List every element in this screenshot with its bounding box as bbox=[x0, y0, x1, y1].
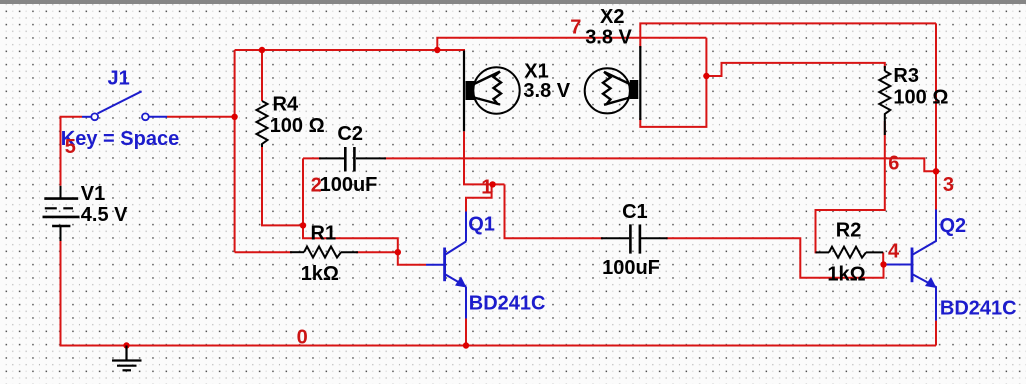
svg-text:BD241C: BD241C bbox=[940, 298, 1017, 320]
wire: X1 bottom pin to node1 bbox=[464, 131, 505, 184]
wire: C1 right run bbox=[666, 238, 884, 277]
transistor Q1 bbox=[426, 212, 466, 319]
wire: top rail y=50 bbox=[235, 49, 464, 51]
wire: battery top to switch corner bbox=[61, 117, 83, 186]
wire: C2 left lead drop to node2 bbox=[302, 158, 304, 225]
resistor R3 (vertical zigzag) bbox=[879, 66, 890, 135]
wire: R4 bottom to node2 bbox=[262, 147, 303, 225]
resistor R1 (horizontal zigzag) bbox=[290, 247, 358, 258]
svg-text:R2: R2 bbox=[836, 220, 862, 242]
wire: node2 jog to R1 right junction bbox=[303, 225, 398, 252]
svg-text:R4: R4 bbox=[273, 94, 299, 116]
wire: node7 jog to R3 top bbox=[706, 63, 884, 76]
svg-text:6: 6 bbox=[888, 152, 899, 174]
svg-text:100uF: 100uF bbox=[602, 257, 660, 279]
wire: R4 top lead bbox=[261, 50, 263, 101]
lamp X1 bbox=[464, 51, 520, 132]
junction X1 top rail bbox=[434, 47, 440, 53]
top gray bar bbox=[0, 0, 1026, 4]
wire: node1 to C1 left bbox=[505, 184, 604, 238]
junction ground tap bbox=[123, 342, 129, 348]
capacitor C1 bbox=[601, 224, 668, 253]
wire: R1 right to junction bbox=[356, 251, 398, 253]
svg-text:Key = Space: Key = Space bbox=[61, 128, 179, 150]
wire: vertical V+ riser x=234.6 top rail to R1 row bbox=[234, 50, 236, 252]
wire: Q2 emitter drop bbox=[935, 321, 937, 346]
svg-text:R3: R3 bbox=[893, 65, 919, 87]
capacitor C2 bbox=[319, 147, 386, 172]
transistor Q2 bbox=[887, 210, 936, 321]
svg-text:4.5 V: 4.5 V bbox=[81, 204, 128, 226]
node 7 junction bbox=[703, 73, 709, 79]
switch J1 bbox=[82, 91, 167, 117]
svg-text:BD241C: BD241C bbox=[469, 293, 546, 315]
svg-text:C1: C1 bbox=[622, 201, 648, 223]
wire: R2 right lead to node4 bbox=[883, 252, 886, 264]
svg-text:J1: J1 bbox=[108, 68, 130, 90]
wire: junction to Q1 base bbox=[398, 252, 426, 265]
wire: R3 bottom route to R2 left bbox=[816, 121, 885, 252]
svg-text:100 Ω: 100 Ω bbox=[893, 86, 948, 108]
svg-text:7: 7 bbox=[570, 16, 581, 38]
battery V1 bbox=[43, 186, 80, 241]
wire: Q1 emitter to ground rail bbox=[465, 319, 467, 346]
junction R1 right bbox=[395, 249, 401, 255]
wire: ground rail bbox=[61, 241, 937, 346]
svg-text:1kΩ: 1kΩ bbox=[301, 263, 339, 285]
svg-text:0: 0 bbox=[297, 326, 308, 348]
node 5 junction bbox=[231, 114, 237, 120]
lamp X2 bbox=[585, 46, 641, 120]
node 1 junction bbox=[489, 181, 495, 187]
svg-text:3: 3 bbox=[943, 174, 954, 196]
wire: node3 riser bbox=[935, 23, 937, 209]
resistor R2 (horizontal zigzag) bbox=[816, 247, 884, 258]
svg-text:3.8 V: 3.8 V bbox=[585, 27, 632, 49]
ground bbox=[112, 346, 142, 371]
wire: R1 feed horizontal bbox=[235, 251, 292, 253]
svg-text:R1: R1 bbox=[311, 222, 337, 244]
wire: C2 right to node3 long run bbox=[384, 158, 936, 171]
svg-text:100uF: 100uF bbox=[320, 174, 378, 196]
wire: X1 top pin corner from rail bbox=[437, 50, 464, 54]
wire: node1 loop to Q1 collector bbox=[466, 184, 492, 211]
svg-text:1kΩ: 1kΩ bbox=[827, 264, 865, 286]
svg-text:X2: X2 bbox=[600, 6, 624, 28]
wire: X2 right side loop down bbox=[640, 38, 706, 127]
svg-text:Q1: Q1 bbox=[468, 214, 495, 236]
svg-text:1: 1 bbox=[481, 177, 492, 199]
wire: switch right to junction 5 bbox=[167, 116, 235, 118]
Q2 emitter arrow bbox=[925, 277, 937, 288]
wire: rail riser to X2 feed y=37.7 bbox=[437, 38, 706, 50]
junction Q1 emitter at rail bbox=[463, 342, 469, 348]
Q1 emitter arrow bbox=[455, 277, 467, 288]
node 4 junction bbox=[880, 261, 886, 267]
svg-text:100 Ω: 100 Ω bbox=[270, 115, 325, 137]
svg-text:C2: C2 bbox=[337, 123, 363, 145]
svg-text:4: 4 bbox=[888, 241, 900, 263]
svg-text:V1: V1 bbox=[81, 183, 105, 205]
wire: X2 pin top to rail y=23.4 bbox=[640, 23, 936, 48]
wire: C2 left stub bbox=[303, 157, 321, 159]
resistor R4 (vertical zigzag) bbox=[257, 101, 268, 147]
node 3 junction bbox=[933, 168, 939, 174]
svg-text:Q2: Q2 bbox=[940, 215, 967, 237]
node 2 junction bbox=[300, 222, 306, 228]
svg-text:5: 5 bbox=[65, 136, 76, 158]
svg-text:3.8 V: 3.8 V bbox=[523, 80, 570, 102]
junction R4 top bbox=[259, 47, 265, 53]
